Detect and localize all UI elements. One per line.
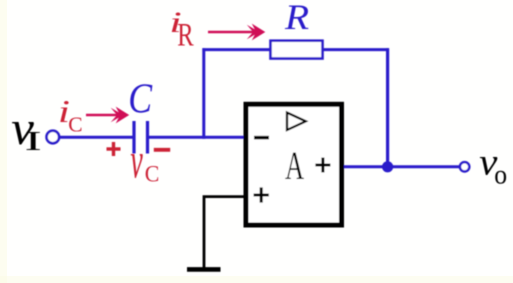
svg-text:C: C [145,161,160,187]
capacitor polarity plus sign (red) [107,142,121,156]
capacitor C left plate [132,121,135,154]
svg-text:I: I [25,125,42,155]
label v_O [479,141,507,190]
label v_C [130,133,159,189]
capacitor C right plate [146,121,149,154]
svg-text:R: R [284,0,309,38]
op-amp label A [285,145,305,189]
op-amp output plus sign [315,158,330,173]
svg-text:v: v [130,133,143,189]
current arrow i_R [208,24,265,41]
svg-text:C: C [68,112,82,136]
op-amp inverting input minus sign [254,136,269,140]
wire: input terminal to capacitor [58,136,134,139]
wire: capacitor to op-amp inverting input [149,136,246,139]
resistor R [271,41,323,59]
op-amp A box [246,104,342,225]
wire: feedback right vertical [386,48,389,167]
label i_C [58,94,83,136]
junction node at output/feedback [382,161,393,172]
ground [187,267,221,272]
svg-text:A: A [285,145,305,189]
label C (capacitor) [128,76,153,123]
wire: feedback left vertical [202,48,205,139]
capacitor polarity minus sign (red) [154,148,170,152]
op-amp triangle symbol [287,113,306,130]
wire: output [344,165,460,168]
op-amp non-inverting input plus sign [254,187,269,202]
label i_R [169,6,194,53]
svg-text:C: C [128,76,153,123]
svg-text:R: R [177,17,194,53]
wire: feedback top-left horizontal [202,48,271,51]
current arrow i_C [86,107,129,124]
background left edge tint [0,0,7,283]
label R (resistor) [284,0,309,38]
svg-text:o: o [494,160,507,190]
input terminal circle v_I [47,131,60,144]
wire: feedback top-right horizontal [323,48,390,51]
label v_I [11,102,41,156]
background bottom edge tint [0,276,513,283]
wire: non-inverting input to ground (black) [204,197,246,268]
output terminal circle v_O [460,162,469,171]
